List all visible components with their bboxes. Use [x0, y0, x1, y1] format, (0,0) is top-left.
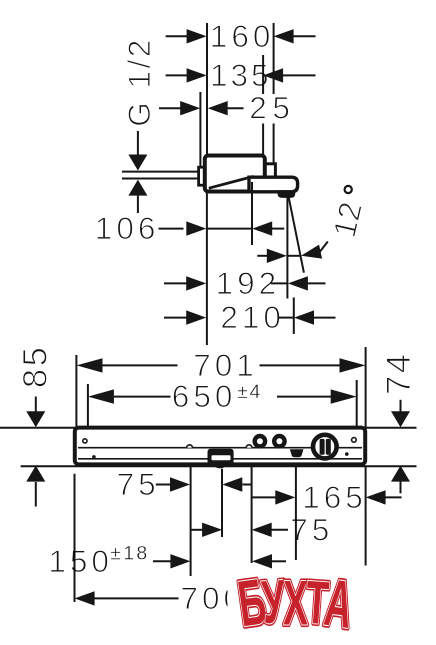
dimension 135 (side view) [166, 74, 188, 76]
watermark logo BUHTA letters [234, 566, 357, 643]
svg-text:160: 160 [210, 18, 275, 54]
svg-text:135: 135 [210, 57, 272, 93]
extension line 701 left [75, 355, 77, 427]
dimension 74 (rotated label) [380, 352, 418, 395]
dimension 165 [252, 496, 277, 498]
screw dome left [187, 445, 193, 448]
dimension 75 second [191, 529, 203, 531]
extension line outlet vertical / 192 (side view) [286, 197, 288, 299]
unit inner groove line A [78, 447, 362, 449]
body diagonal lower edge 12 deg (side view) [209, 176, 254, 188]
svg-text:85: 85 [16, 345, 54, 388]
hose outlet blob [290, 449, 304, 457]
extension line 210 (side view) [293, 297, 295, 334]
dimension 192 (side view) [164, 282, 187, 284]
reference line tilted 12 deg (side view) [289, 197, 304, 273]
spout inlet fitting (side view) [199, 167, 207, 185]
knob grip bar 2 [326, 439, 331, 455]
bottom extension line of unit (front view) [21, 465, 417, 467]
select button 1 [255, 436, 265, 446]
svg-text:±18: ±18 [110, 542, 149, 564]
small dot right [345, 452, 349, 456]
small dot bottom-left [92, 455, 96, 459]
extension line unit right lower [365, 467, 367, 566]
label 12 deg (rotated) [326, 199, 369, 241]
spout arm (side view) [249, 177, 298, 192]
svg-text:75: 75 [117, 466, 160, 502]
dimension 700 (partially covered by logo) [75, 591, 95, 605]
extension line spout center [221, 469, 223, 537]
extension line 106 (side view) [251, 182, 253, 245]
wall extension line (side view, lower) [206, 192, 208, 345]
bath spout window [212, 455, 231, 460]
extension line body face / 135 dim (side view) [262, 55, 264, 94]
svg-text:25: 25 [249, 90, 295, 126]
svg-text:74: 74 [380, 352, 418, 395]
spout mixer body (side view) [205, 156, 265, 192]
bath spout dome [213, 463, 228, 469]
dimension 701 [77, 358, 103, 372]
svg-text:192: 192 [216, 265, 281, 301]
G1/2 extension lines (inlet) [122, 171, 198, 173]
extension line 650 right [356, 380, 358, 427]
svg-text:165: 165 [302, 479, 367, 515]
extension line for 25 dim left (side view) [199, 92, 201, 168]
extension line screw right [251, 467, 253, 563]
knob grip bar 1 [320, 439, 325, 455]
wall-mount step (side view) [261, 164, 275, 185]
unit inner groove line B [78, 458, 362, 460]
small hole right [352, 438, 357, 443]
extension line step face / 160 dim (side view) [273, 23, 275, 94]
svg-text:150: 150 [48, 543, 113, 579]
dimension 650 +-4 [88, 389, 114, 403]
svg-text:650: 650 [172, 378, 237, 414]
extension line screw left [190, 467, 192, 576]
dimension 160 (side view) [166, 35, 188, 37]
top extension line of unit (front view) [0, 427, 417, 429]
screw dome right [246, 445, 252, 448]
wall extension line (side view, upper) [206, 23, 208, 156]
watermark logo BUHTA background [228, 572, 354, 641]
select button 2 [274, 436, 284, 446]
aerator outlet (side view) [278, 190, 296, 198]
svg-text:210: 210 [220, 299, 285, 335]
small hole top-left [83, 439, 87, 443]
dimension 85 (rotated label) [16, 345, 54, 388]
angle dimension arrows 12 deg (side view) [257, 255, 267, 257]
dimension G1/2 vertical arrows [137, 131, 139, 155]
extension line unit left lower [74, 474, 76, 602]
extension line 650 left [87, 384, 89, 427]
dimension 25 (side view) [159, 107, 181, 109]
svg-text:±4: ±4 [237, 381, 262, 403]
thermostat knob ring [313, 435, 337, 459]
svg-text:G 1/2: G 1/2 [121, 37, 157, 127]
extension line 701 right upper [365, 347, 367, 427]
svg-text:106: 106 [95, 210, 160, 246]
thermostat unit bar (front view) [75, 428, 365, 465]
label G 1/2 (rotated) [121, 37, 157, 127]
dimension 210 (side view) [164, 317, 187, 319]
bath spout block (front view) [208, 449, 234, 465]
svg-text:75: 75 [290, 511, 333, 547]
extension line hose outlet [295, 467, 297, 560]
